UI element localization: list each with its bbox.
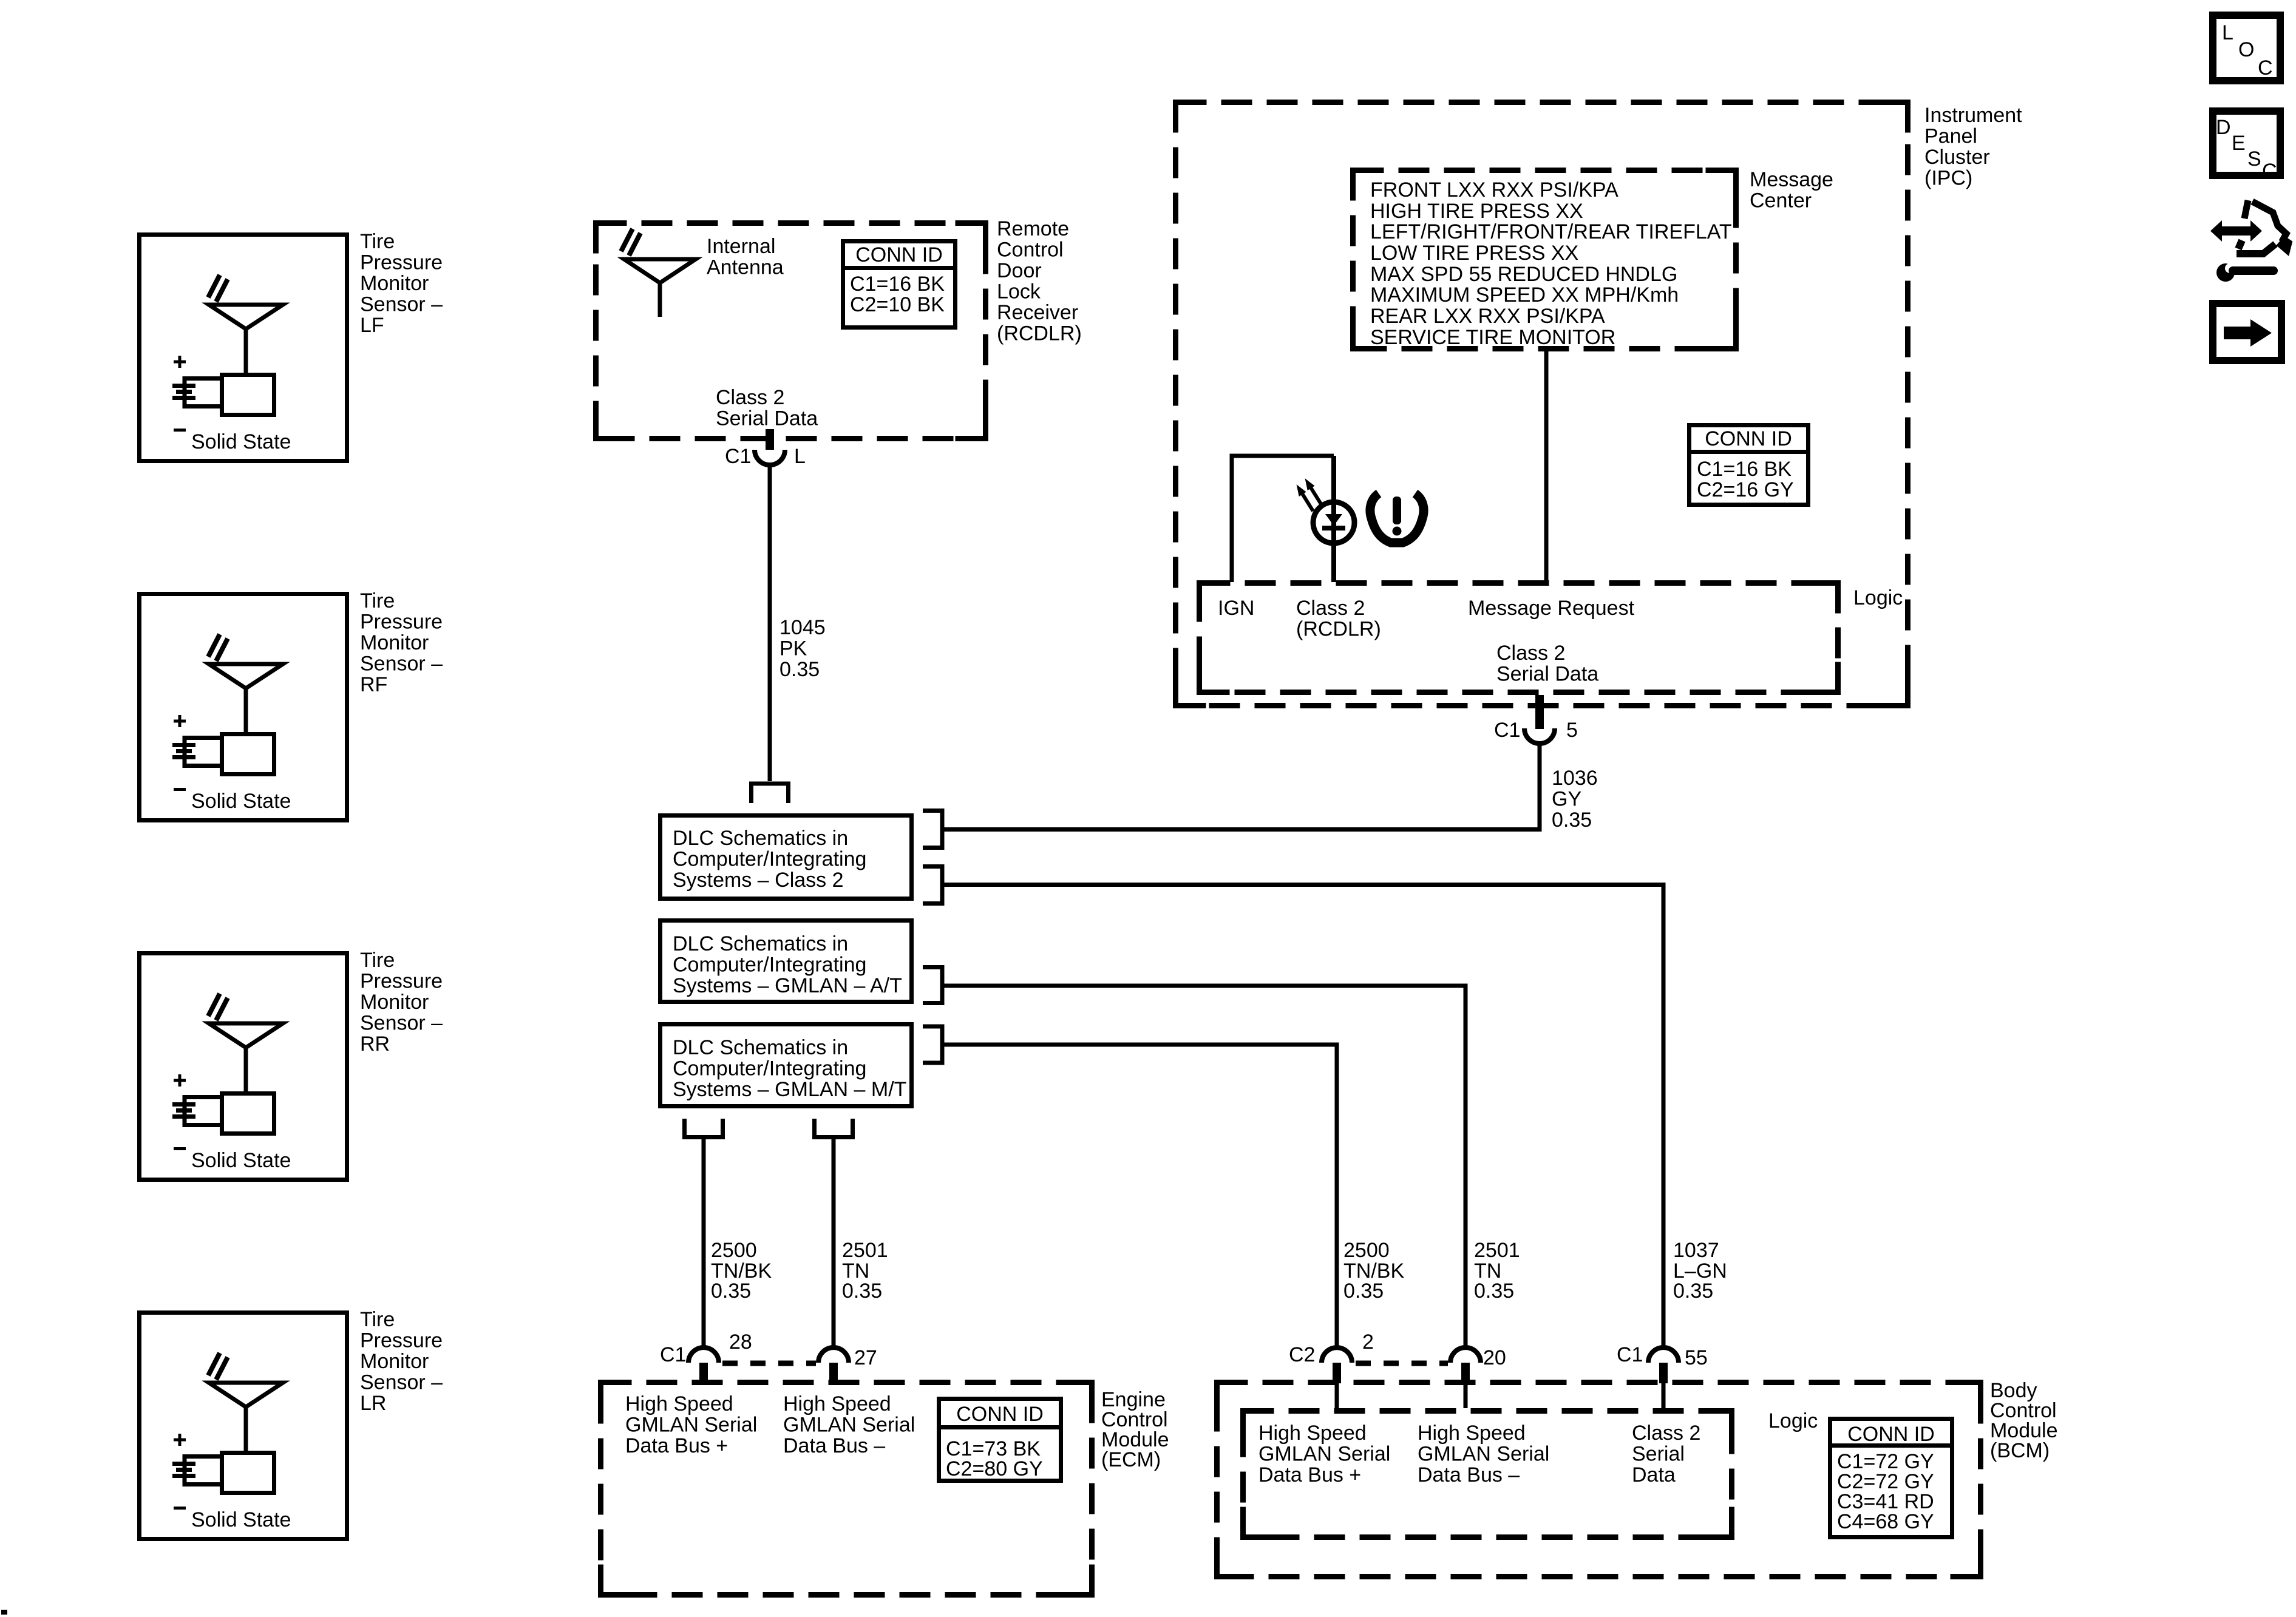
svg-text:Class 2: Class 2 (1296, 597, 1365, 620)
svg-text:High Speed: High Speed (1418, 1422, 1526, 1445)
svg-text:LOW TIRE PRESS XX: LOW TIRE PRESS XX (1370, 242, 1578, 265)
svg-text:Message Request: Message Request (1468, 597, 1635, 620)
svg-text:0.35: 0.35 (842, 1280, 882, 1303)
svg-text:REAR LXX RXX PSI/KPA: REAR LXX RXX PSI/KPA (1370, 305, 1605, 328)
svg-text:DLC Schematics in: DLC Schematics in (673, 827, 848, 850)
svg-text:LF: LF (360, 314, 384, 337)
svg-text:2501: 2501 (842, 1239, 888, 1262)
svg-text:Data Bus +: Data Bus + (1258, 1463, 1361, 1486)
svg-text:CONN ID: CONN ID (956, 1403, 1044, 1426)
svg-text:Antenna: Antenna (707, 256, 784, 279)
svg-text:Data Bus +: Data Bus + (625, 1434, 728, 1457)
svg-text:Instrument: Instrument (1924, 104, 2022, 127)
svg-text:Class 2: Class 2 (1632, 1422, 1700, 1445)
svg-text:0.35: 0.35 (711, 1280, 751, 1303)
svg-text:Systems – Class 2: Systems – Class 2 (673, 869, 844, 892)
svg-text:DLC Schematics in: DLC Schematics in (673, 1036, 848, 1059)
svg-text:MAX SPD 55 REDUCED HNDLG: MAX SPD 55 REDUCED HNDLG (1370, 263, 1677, 286)
svg-text:Control: Control (997, 239, 1064, 262)
svg-text:RR: RR (360, 1032, 390, 1056)
svg-text:(ECM): (ECM) (1101, 1448, 1161, 1471)
svg-text:High Speed: High Speed (1258, 1422, 1367, 1445)
svg-text:Serial: Serial (1632, 1443, 1685, 1466)
svg-text:Systems – GMLAN – A/T: Systems – GMLAN – A/T (673, 974, 902, 997)
svg-text:SERVICE TIRE MONITOR: SERVICE TIRE MONITOR (1370, 326, 1615, 349)
svg-text:High Speed: High Speed (625, 1392, 733, 1415)
svg-text:(RCDLR): (RCDLR) (997, 322, 1082, 345)
svg-text:L: L (794, 445, 806, 468)
svg-text:2500: 2500 (711, 1239, 757, 1262)
svg-text:Serial Data: Serial Data (1496, 663, 1598, 686)
svg-text:1037: 1037 (1673, 1239, 1719, 1262)
svg-text:O: O (2238, 38, 2254, 61)
svg-text:DLC Schematics in: DLC Schematics in (673, 932, 848, 955)
svg-text:Message: Message (1750, 168, 1833, 191)
svg-text:Door: Door (997, 259, 1042, 282)
svg-text:C2=80 GY: C2=80 GY (946, 1457, 1043, 1480)
svg-text:Remote: Remote (997, 217, 1069, 240)
svg-text:Receiver: Receiver (997, 301, 1078, 324)
svg-text:Computer/Integrating: Computer/Integrating (673, 954, 866, 977)
svg-text:C1: C1 (660, 1343, 686, 1366)
svg-text:C1: C1 (725, 445, 751, 468)
svg-text:C: C (2262, 160, 2277, 183)
svg-text:1045: 1045 (779, 616, 826, 639)
svg-text:High Speed: High Speed (783, 1392, 891, 1415)
svg-text:(RCDLR): (RCDLR) (1296, 618, 1381, 641)
svg-text:1036: 1036 (1552, 767, 1598, 790)
svg-text:2: 2 (1362, 1331, 1374, 1354)
svg-text:Computer/Integrating: Computer/Integrating (673, 848, 866, 871)
svg-text:C2: C2 (1289, 1343, 1315, 1366)
svg-text:C: C (2258, 56, 2273, 80)
svg-text:HIGH TIRE PRESS XX: HIGH TIRE PRESS XX (1370, 200, 1583, 223)
svg-text:S: S (2247, 147, 2261, 171)
svg-text:GMLAN Serial: GMLAN Serial (625, 1414, 757, 1437)
svg-text:D: D (2216, 116, 2231, 139)
svg-text:Class 2: Class 2 (1496, 642, 1565, 665)
svg-text:FRONT LXX RXX PSI/KPA: FRONT LXX RXX PSI/KPA (1370, 178, 1618, 202)
svg-text:C2=16 GY: C2=16 GY (1697, 478, 1794, 501)
svg-text:L: L (2222, 21, 2233, 44)
svg-text:Data: Data (1632, 1463, 1676, 1486)
svg-text:0.35: 0.35 (1474, 1280, 1514, 1303)
svg-text:Serial Data: Serial Data (716, 407, 818, 430)
svg-text:20: 20 (1483, 1346, 1506, 1369)
svg-text:Class 2: Class 2 (716, 386, 784, 409)
svg-text:GMLAN Serial: GMLAN Serial (1258, 1443, 1390, 1466)
svg-text:IGN: IGN (1218, 597, 1254, 620)
svg-text:C1=16 BK: C1=16 BK (850, 273, 945, 296)
svg-text:0.35: 0.35 (1343, 1280, 1384, 1303)
svg-text:CONN ID: CONN ID (1847, 1423, 1935, 1446)
svg-text:RF: RF (360, 673, 387, 696)
svg-text:LEFT/RIGHT/FRONT/REAR TIREFLAT: LEFT/RIGHT/FRONT/REAR TIREFLAT (1370, 220, 1732, 243)
svg-text:Computer/Integrating: Computer/Integrating (673, 1057, 866, 1080)
svg-text:C1: C1 (1617, 1343, 1643, 1366)
svg-text:CONN ID: CONN ID (855, 243, 943, 266)
svg-text:Internal: Internal (707, 235, 775, 258)
svg-text:55: 55 (1685, 1346, 1708, 1369)
svg-text:5: 5 (1566, 719, 1578, 742)
svg-text:GMLAN Serial: GMLAN Serial (1418, 1443, 1549, 1466)
svg-text:CONN ID: CONN ID (1705, 427, 1792, 450)
svg-text:0.35: 0.35 (1673, 1280, 1713, 1303)
svg-text:Panel: Panel (1924, 125, 1977, 148)
svg-text:Logic: Logic (1853, 586, 1903, 609)
svg-text:27: 27 (854, 1346, 877, 1369)
svg-text:Lock: Lock (997, 280, 1041, 303)
svg-text:2500: 2500 (1343, 1239, 1390, 1262)
svg-text:Logic: Logic (1768, 1409, 1818, 1432)
svg-text:(BCM): (BCM) (1990, 1439, 2050, 1462)
svg-text:C1=16 BK: C1=16 BK (1697, 458, 1792, 481)
svg-text:GMLAN Serial: GMLAN Serial (783, 1414, 915, 1437)
svg-text:PK: PK (779, 637, 807, 660)
svg-text:E: E (2232, 132, 2246, 155)
svg-text:LR: LR (360, 1392, 386, 1415)
svg-text:Data Bus –: Data Bus – (783, 1434, 885, 1457)
svg-text:MAXIMUM SPEED XX MPH/Kmh: MAXIMUM SPEED XX MPH/Kmh (1370, 283, 1679, 307)
svg-text:Systems – GMLAN – M/T: Systems – GMLAN – M/T (673, 1078, 906, 1101)
svg-text:C4=68 GY: C4=68 GY (1837, 1510, 1934, 1533)
svg-text:(IPC): (IPC) (1924, 167, 1972, 190)
svg-text:Data Bus –: Data Bus – (1418, 1463, 1520, 1486)
svg-text:Center: Center (1750, 189, 1812, 212)
svg-text:28: 28 (729, 1331, 752, 1354)
svg-text:0.35: 0.35 (779, 658, 820, 681)
svg-text:0.35: 0.35 (1552, 808, 1592, 832)
svg-text:C2=10 BK: C2=10 BK (850, 293, 945, 316)
svg-text:Cluster: Cluster (1924, 146, 1990, 169)
svg-text:C1: C1 (1494, 719, 1520, 742)
svg-text:GY: GY (1552, 788, 1581, 811)
svg-text:2501: 2501 (1474, 1239, 1520, 1262)
